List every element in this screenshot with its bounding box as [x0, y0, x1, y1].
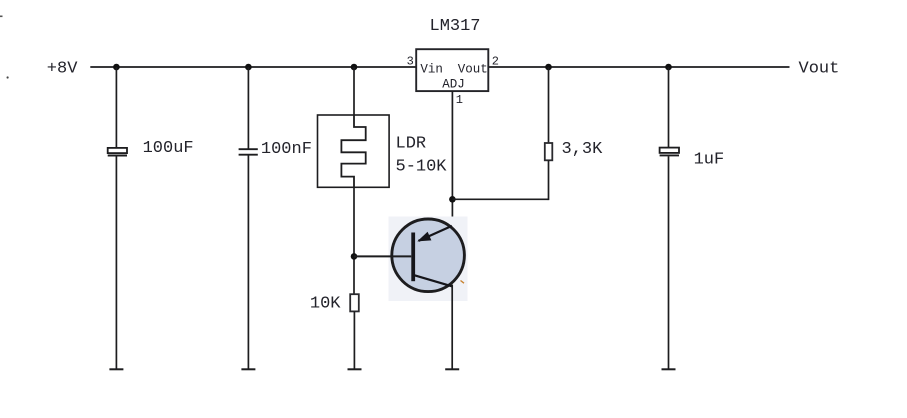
- capacitor C3 1uF bottom plate: [660, 154, 679, 156]
- node B junction dot at rail x=248: [245, 64, 252, 71]
- photoresistor LDR body box: [318, 115, 390, 187]
- wire C3 bottom: [668, 156, 670, 369]
- ground C3: [662, 368, 676, 370]
- svg-text:LDR: LDR: [396, 134, 427, 153]
- ground C2: [241, 368, 255, 370]
- wire collector down: [451, 285, 453, 370]
- transistor Q1 emitter arrowhead: [417, 232, 431, 242]
- svg-text:3: 3: [407, 55, 414, 69]
- wire C3 top: [668, 67, 670, 148]
- resistor R2 3,3K body: [545, 143, 553, 160]
- wire LDR top: [353, 67, 355, 115]
- photoresistor LDR meander element: [341, 115, 365, 187]
- wire top rail right segment: [488, 66, 789, 68]
- transistor Q1 base bar: [411, 233, 415, 282]
- transistor Q1 background square: [389, 217, 468, 302]
- transistor Q1 emitter line: [419, 226, 452, 241]
- capacitor C2 100nF bottom plate: [239, 154, 258, 156]
- wire ADJ pin down to emitter node: [451, 91, 453, 226]
- ground C1: [109, 368, 123, 370]
- svg-text:1uF: 1uF: [694, 150, 725, 169]
- svg-text:100nF: 100nF: [261, 140, 312, 159]
- wire R3 bottom: [353, 311, 355, 369]
- capacitor C1 100uF bottom plate: [108, 155, 127, 157]
- wire LDR bottom to base node: [353, 187, 355, 294]
- wire base from node F: [354, 255, 411, 257]
- node F junction dot base: [351, 253, 358, 260]
- wire R2 top: [548, 67, 550, 143]
- node D junction dot at rail x=548: [545, 64, 552, 71]
- artifact speck top left: [0, 15, 3, 17]
- artifact orange mark: [461, 281, 465, 284]
- svg-text:Vout: Vout: [458, 63, 488, 77]
- node E junction dot at rail x=668: [665, 64, 672, 71]
- node G junction dot ADJ/emitter: [449, 196, 456, 203]
- svg-text:+8V: +8V: [47, 60, 78, 79]
- wire from node G to R2 bottom: [452, 198, 548, 200]
- svg-text:ADJ: ADJ: [442, 78, 465, 92]
- node A junction dot at rail x=116: [113, 64, 120, 71]
- op-amp U1 LM317 body: [416, 49, 488, 91]
- ground R3: [348, 368, 362, 370]
- svg-text:Vin: Vin: [420, 63, 443, 77]
- wire top rail left segment: [90, 66, 416, 68]
- svg-text:Vout: Vout: [799, 60, 840, 79]
- wire R2 bottom: [548, 160, 550, 200]
- svg-text:100uF: 100uF: [143, 139, 194, 158]
- capacitor C2 100nF top plate: [239, 148, 258, 150]
- transistor Q1 collector line: [412, 275, 452, 287]
- svg-text:LM317: LM317: [430, 17, 481, 36]
- node C junction dot at rail x=354: [351, 64, 358, 71]
- svg-text:2: 2: [492, 55, 499, 69]
- transistor Q1 body circle: [392, 219, 465, 292]
- wire C1 bottom: [115, 156, 117, 369]
- wire C2 top: [247, 67, 249, 150]
- artifact speck left: [7, 76, 9, 78]
- svg-text:3,3K: 3,3K: [562, 140, 604, 159]
- capacitor C3 1uF plate box: [660, 148, 679, 153]
- capacitor C1 100uF plate box: [108, 148, 127, 153]
- svg-text:1: 1: [456, 93, 463, 107]
- svg-text:5-10K: 5-10K: [396, 157, 448, 176]
- resistor R3 10K body: [350, 294, 359, 311]
- wire C2 bottom: [247, 155, 249, 370]
- svg-text:10K: 10K: [310, 295, 341, 314]
- ground Q1: [445, 368, 459, 370]
- wire C1 top: [115, 67, 117, 149]
